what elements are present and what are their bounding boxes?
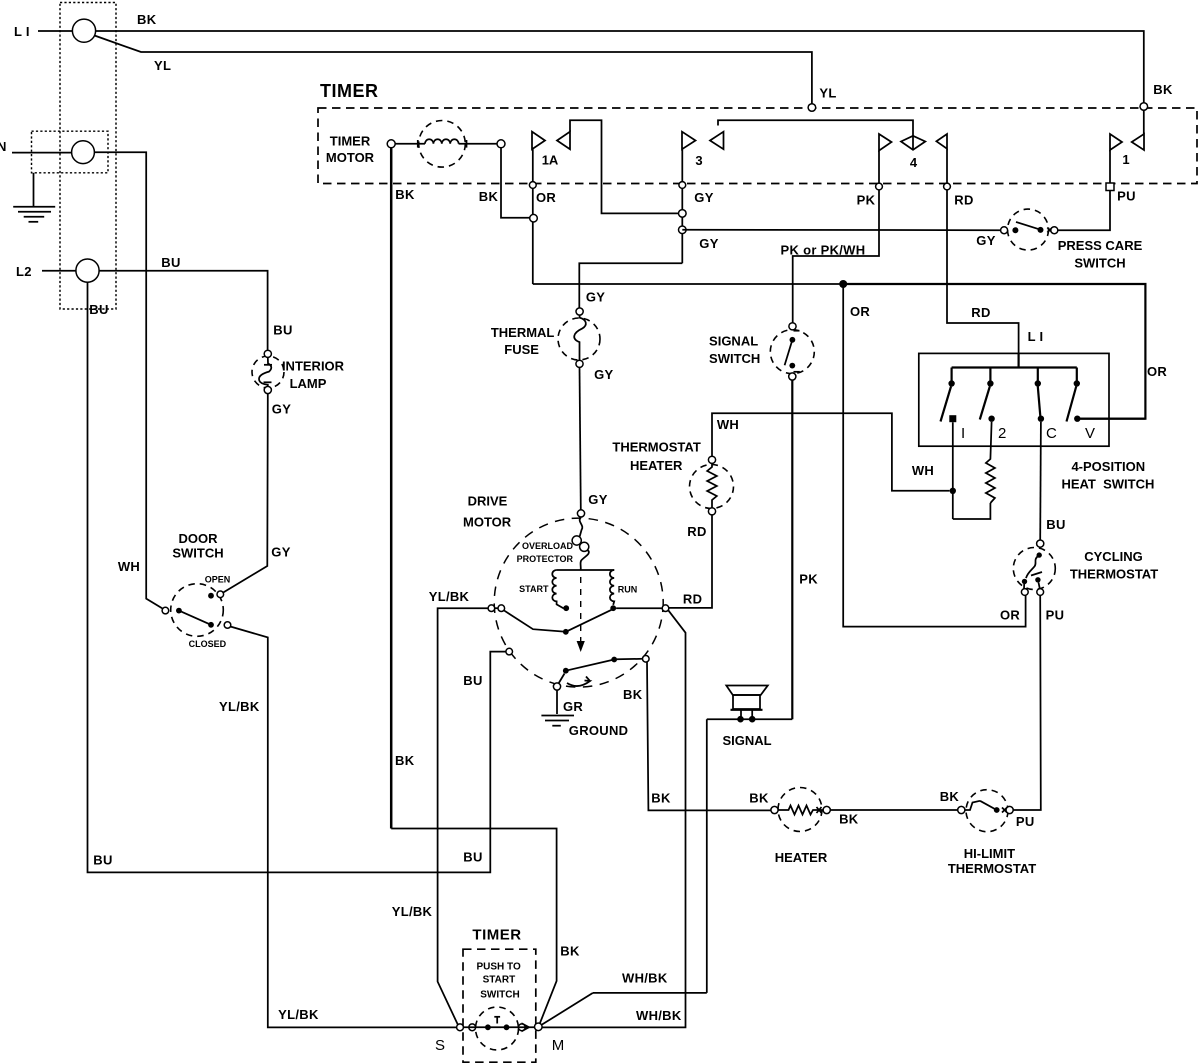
- heat switch pole dots: [948, 380, 954, 386]
- svg-text:RD: RD: [683, 591, 702, 606]
- svg-text:WH: WH: [717, 417, 739, 432]
- terminal M circles: [518, 1024, 525, 1031]
- wire PU contact 1 down to press care switch: [1058, 150, 1110, 230]
- motor rotation arrow: [567, 677, 590, 687]
- timer motor left terminal: [387, 140, 395, 148]
- svg-text:HEATER: HEATER: [775, 850, 828, 865]
- svg-text:4-POSITION: 4-POSITION: [1071, 459, 1145, 474]
- heat switch contact V dot: [1074, 416, 1080, 422]
- svg-text:WH/BK: WH/BK: [636, 1008, 682, 1023]
- svg-text:PROTECTOR: PROTECTOR: [517, 554, 574, 564]
- svg-text:L2: L2: [16, 264, 32, 279]
- wire OR horizontal to right: [533, 283, 844, 285]
- junction dot OR: [839, 280, 847, 288]
- svg-text:C: C: [1046, 425, 1057, 442]
- svg-text:OR: OR: [1000, 608, 1020, 623]
- svg-text:YL: YL: [154, 58, 171, 73]
- heat switch contact C dot: [1038, 416, 1044, 422]
- wire OR down to cycling thermostat: [843, 284, 1025, 627]
- svg-text:TIMER: TIMER: [320, 81, 379, 101]
- svg-text:BU: BU: [273, 323, 292, 338]
- svg-text:PU: PU: [1117, 189, 1136, 204]
- svg-text:OPEN: OPEN: [205, 574, 231, 584]
- wire PU cycling thermostat to hi-limit: [1013, 596, 1041, 811]
- svg-text:BK: BK: [839, 812, 859, 827]
- svg-text:GY: GY: [588, 492, 607, 507]
- svg-text:GY: GY: [272, 402, 291, 417]
- terminal L1: [72, 19, 95, 42]
- svg-text:2: 2: [998, 425, 1006, 442]
- wire WH thermostat heater to heat switch: [712, 413, 950, 491]
- svg-text:YL/BK: YL/BK: [219, 699, 260, 714]
- wire WH/BK horizontal upper: [593, 992, 707, 994]
- wire GY fuse to drive motor: [580, 367, 581, 509]
- svg-text:OR: OR: [536, 190, 556, 205]
- wire GY jog to thermal fuse: [579, 263, 682, 307]
- svg-text:GROUND: GROUND: [569, 723, 629, 738]
- svg-text:BK: BK: [479, 189, 499, 204]
- wire L1 lead into heat switch: [1017, 353, 1019, 368]
- svg-text:YL/BK: YL/BK: [392, 904, 433, 919]
- svg-text:TIMER: TIMER: [330, 134, 371, 149]
- motor run winding: [610, 570, 614, 605]
- svg-text:GR: GR: [563, 699, 583, 714]
- svg-text:BK: BK: [137, 12, 157, 27]
- svg-text:SWITCH: SWITCH: [172, 545, 223, 560]
- terminal L2: [76, 259, 99, 282]
- BK entry circle on timer box top: [1140, 103, 1148, 111]
- timer motor coil: [395, 121, 497, 168]
- YL entry circle on timer box top: [808, 104, 816, 112]
- svg-text:SIGNAL: SIGNAL: [709, 334, 758, 349]
- heat switch blade V: [1067, 387, 1077, 422]
- svg-text:WH/BK: WH/BK: [622, 971, 668, 986]
- wire BK motor to heater: [647, 662, 771, 811]
- heat switch contact 2 dot: [988, 416, 994, 422]
- heat switch blade 1: [941, 387, 952, 422]
- motor center dashed axis: [580, 577, 582, 641]
- svg-text:OR: OR: [1147, 364, 1167, 379]
- ground symbol motor: [541, 716, 574, 726]
- svg-text:N: N: [0, 139, 7, 154]
- svg-text:WH: WH: [912, 463, 934, 478]
- svg-text:BK: BK: [749, 791, 769, 806]
- wire resistor bottom U: [953, 503, 991, 519]
- svg-text:BU: BU: [93, 853, 112, 868]
- heat switch internal bus: [952, 368, 1077, 382]
- wire YL/BK motor to start switch S: [438, 608, 489, 1025]
- wire BU L2 down to motor BU: [88, 282, 507, 872]
- svg-text:PU: PU: [1016, 814, 1035, 829]
- svg-text:RD: RD: [954, 193, 973, 208]
- svg-text:YL: YL: [819, 86, 836, 101]
- junction dot WH: [950, 488, 956, 494]
- heat switch blade 2: [980, 387, 990, 420]
- wire YL/BK door switch to bottom line: [230, 627, 456, 1028]
- svg-text:THERMOSTAT: THERMOSTAT: [1070, 567, 1158, 582]
- svg-text:THERMAL: THERMAL: [491, 325, 555, 340]
- timer contact 1: [1110, 134, 1144, 167]
- heat switch contact 1 square: [949, 415, 956, 422]
- svg-text:THERMOSTAT: THERMOSTAT: [948, 861, 1036, 876]
- junction circle GY upper: [679, 210, 687, 218]
- svg-text:HEATER: HEATER: [630, 458, 683, 473]
- centrifugal switch dot: [563, 629, 569, 635]
- wire OR contact 1A down: [532, 149, 534, 214]
- svg-text:L I: L I: [1028, 329, 1044, 344]
- wire L2 lead: [42, 270, 76, 272]
- svg-text:L I: L I: [14, 24, 30, 39]
- centrifugal blade to run: [566, 610, 612, 632]
- svg-text:BK: BK: [395, 753, 415, 768]
- svg-text:3: 3: [695, 153, 702, 168]
- wire GY lamp to door switch open: [223, 394, 268, 593]
- svg-text:BU: BU: [463, 673, 482, 688]
- wire WH/BK motor line down: [668, 610, 685, 993]
- timer dashed box: [318, 108, 1197, 184]
- wire 3 right side up and over to contact 4 diamond: [718, 120, 913, 150]
- svg-text:FUSE: FUSE: [504, 342, 539, 357]
- svg-text:GY: GY: [594, 367, 613, 382]
- wire RD thermostat heater down to motor run: [669, 515, 712, 608]
- svg-text:LAMP: LAMP: [290, 376, 327, 391]
- wire RD contact 4 right down: [947, 149, 1019, 353]
- svg-text:V: V: [1085, 425, 1095, 442]
- wire GY contact 3 down: [681, 149, 683, 263]
- svg-text:SWITCH: SWITCH: [1074, 256, 1125, 271]
- svg-text:BK: BK: [940, 789, 960, 804]
- svg-text:OR: OR: [850, 304, 870, 319]
- svg-text:DRIVE: DRIVE: [468, 494, 508, 509]
- cycling thermostat: [1013, 540, 1055, 595]
- svg-text:GY: GY: [586, 290, 605, 305]
- motor BK terminal circle: [643, 656, 650, 663]
- svg-text:RUN: RUN: [618, 585, 638, 595]
- wire OR right segment to heat switch V: [844, 284, 1145, 419]
- wire signal leads horizontal: [707, 718, 793, 720]
- wire BK timer motor right to OR junction: [501, 148, 530, 218]
- wire N lead: [12, 152, 72, 154]
- wire BU heat switch C to cycling thermostat: [1039, 422, 1042, 540]
- motor run dot: [610, 605, 616, 611]
- svg-text:START: START: [519, 584, 549, 594]
- svg-text:I: I: [961, 425, 965, 442]
- motor GR terminal: [553, 683, 560, 690]
- signal switch: [770, 323, 814, 380]
- door switch: [162, 584, 231, 637]
- junction circle BK/OR: [530, 214, 538, 222]
- heat switch blade C closed: [1038, 387, 1041, 417]
- svg-text:TIMER: TIMER: [472, 927, 521, 944]
- svg-text:BK: BK: [560, 944, 580, 959]
- timer motor right terminal: [497, 140, 505, 148]
- drive motor dashed circle: [494, 518, 663, 687]
- wire BU L2 to interior lamp: [99, 271, 268, 351]
- wire centrifugal feed: [504, 610, 566, 632]
- svg-text:START: START: [483, 975, 516, 986]
- svg-text:HEAT SWITCH: HEAT SWITCH: [1061, 477, 1154, 492]
- resistor under switch 2: [986, 422, 995, 503]
- svg-text:BK: BK: [395, 187, 415, 202]
- push to start switch dashed box: [463, 949, 536, 1062]
- svg-text:M: M: [552, 1037, 565, 1054]
- terminal block outer dotted rectangle: [60, 3, 116, 310]
- wire V contact to OR: [1081, 418, 1146, 420]
- svg-text:MOTOR: MOTOR: [326, 150, 375, 165]
- svg-text:RD: RD: [687, 524, 706, 539]
- thermostat heater: [690, 456, 734, 515]
- signal buzzer: [726, 686, 768, 723]
- svg-text:BK: BK: [651, 791, 671, 806]
- wire PK contact 4 down and jog to signal switch: [793, 151, 879, 323]
- motor start dot: [563, 605, 569, 611]
- hi-limit thermostat: [958, 790, 1014, 832]
- wire BK heater to hi-limit: [830, 809, 958, 811]
- svg-text:YL/BK: YL/BK: [278, 1007, 319, 1022]
- wire N box ground lead: [33, 173, 35, 207]
- svg-text:MOTOR: MOTOR: [463, 515, 512, 530]
- wire L1 lead: [38, 30, 72, 32]
- wire PK signal switch down to signal buzzer: [791, 380, 793, 719]
- svg-text:PK: PK: [857, 193, 876, 208]
- svg-text:PUSH TO: PUSH TO: [476, 962, 520, 973]
- motor winding bus: [557, 569, 615, 571]
- wire run dot to RD terminal: [616, 607, 662, 609]
- svg-text:SWITCH: SWITCH: [709, 351, 760, 366]
- svg-text:BU: BU: [1046, 517, 1065, 532]
- press care switch: [1001, 209, 1058, 250]
- svg-text:1: 1: [1122, 152, 1129, 167]
- wire BK timer motor left down: [390, 148, 393, 829]
- wire signal left down: [706, 719, 708, 993]
- svg-text:SIGNAL: SIGNAL: [722, 733, 771, 748]
- svg-text:PRESS CARE: PRESS CARE: [1058, 238, 1143, 253]
- svg-text:PU: PU: [1046, 608, 1065, 623]
- terminal S circles: [457, 1024, 464, 1031]
- wire BK timer box top to contact 1: [1143, 110, 1145, 134]
- wire OR down to horizontal bus: [532, 222, 534, 284]
- svg-text:YL/BK: YL/BK: [429, 589, 470, 604]
- motor start winding: [552, 570, 563, 608]
- svg-text:RD: RD: [971, 305, 990, 320]
- wire YL L1 to timer top: [95, 36, 812, 105]
- svg-text:GY: GY: [694, 190, 713, 205]
- wire GR to ground: [556, 690, 558, 714]
- wire WH/BK diagonal to M: [540, 993, 593, 1026]
- svg-text:4: 4: [910, 155, 918, 170]
- ground symbol top left: [13, 207, 55, 222]
- interior lamp: [252, 350, 284, 393]
- motor GR dot link: [559, 674, 565, 684]
- timer contact 1A: [532, 132, 570, 168]
- svg-text:BK: BK: [1153, 82, 1173, 97]
- junction circle GY lower: [679, 226, 687, 234]
- svg-text:PK: PK: [799, 571, 818, 586]
- svg-text:1A: 1A: [542, 153, 559, 168]
- svg-text:OVERLOAD: OVERLOAD: [522, 541, 574, 551]
- svg-text:WH: WH: [118, 559, 140, 574]
- push to start switch: [476, 1007, 530, 1050]
- motor BU terminal circle: [506, 648, 513, 655]
- heater: [771, 788, 830, 832]
- svg-text:S: S: [435, 1037, 445, 1054]
- thermal fuse: [558, 308, 600, 368]
- svg-text:GY: GY: [976, 233, 995, 248]
- 4-position heat switch box: [919, 353, 1109, 446]
- motor axis arrow: [577, 641, 585, 652]
- svg-text:DOOR: DOOR: [179, 531, 219, 546]
- wire GY to press care switch: [682, 229, 1000, 231]
- svg-text:BU: BU: [89, 302, 108, 317]
- svg-text:SWITCH: SWITCH: [480, 990, 519, 1001]
- svg-text:HI-LIMIT: HI-LIMIT: [964, 846, 1015, 861]
- svg-text:BU: BU: [161, 255, 180, 270]
- wire switch1 bottom with WH junction: [952, 422, 954, 519]
- svg-text:GY: GY: [699, 236, 718, 251]
- timer contact 3: [682, 132, 724, 168]
- wire bottom line between terminals: [463, 1026, 534, 1028]
- terminal block N dotted box: [32, 131, 109, 173]
- wire BK timer motor bottom jog: [391, 829, 556, 1026]
- motor YL/BK terminals: [488, 605, 495, 612]
- svg-text:THERMOSTAT: THERMOSTAT: [612, 440, 700, 455]
- wire WH/BK lower jog: [542, 993, 686, 1028]
- terminal N: [72, 141, 95, 164]
- svg-text:BK: BK: [623, 687, 643, 702]
- timer contact 4: [879, 134, 947, 170]
- svg-text:CLOSED: CLOSED: [189, 639, 227, 649]
- svg-text:GY: GY: [271, 545, 290, 560]
- svg-text:CYCLING: CYCLING: [1084, 549, 1143, 564]
- wire BK L1 to timer contact 1: [96, 31, 1144, 103]
- wire 1A right side up and over: [570, 120, 679, 213]
- motor overload protector: [572, 517, 589, 570]
- wire WH N to door switch: [94, 152, 165, 610]
- motor GY terminal: [577, 510, 584, 517]
- motor RD terminal circle: [662, 605, 669, 612]
- svg-text:BU: BU: [463, 850, 482, 865]
- svg-text:INTERIOR: INTERIOR: [282, 359, 345, 374]
- motor lower switch dots and blade: [563, 668, 569, 674]
- svg-text:PK or PK/WH: PK or PK/WH: [781, 243, 866, 258]
